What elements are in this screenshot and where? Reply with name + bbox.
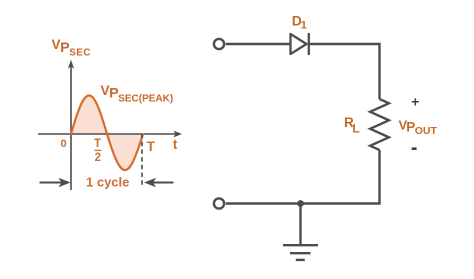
wire top from terminal to diode [226,43,290,45]
svg-text:t: t [173,137,178,152]
y-axis [68,60,74,190]
1 cycle right arrow [144,178,174,188]
svg-text:1 cycle: 1 cycle [86,175,129,190]
label - polarity [412,147,417,150]
ground [283,204,318,260]
wire bottom [226,202,381,204]
svg-text:RL: RL [344,115,360,136]
diode D1 [291,33,309,55]
junction node on bottom wire [297,200,304,207]
svg-text:T: T [147,139,156,154]
svg-text:VPSEC(PEAK): VPSEC(PEAK) [101,83,174,105]
terminal top-left [214,39,224,49]
wire right down from resistor to bottom [378,150,380,204]
waveform VP_SEC sine curve [71,96,143,171]
dashed line at t=T [141,134,143,188]
svg-text:T: T [94,138,101,150]
x-axis [38,131,182,138]
svg-text:2: 2 [95,152,101,164]
svg-text:VPOUT: VPOUT [399,117,438,136]
wire top from diode to corner and down to resistor [309,44,380,99]
svg-text:D1: D1 [292,13,307,32]
terminal bottom-left [214,198,224,208]
svg-text:+: + [411,93,419,109]
svg-text:VPSEC: VPSEC [52,37,91,58]
svg-text:0: 0 [61,138,67,150]
label T/2 [94,138,102,164]
waveform fill VP_SEC sine area [71,96,143,171]
1 cycle left arrow [40,178,71,188]
resistor RL zigzag [370,99,389,150]
